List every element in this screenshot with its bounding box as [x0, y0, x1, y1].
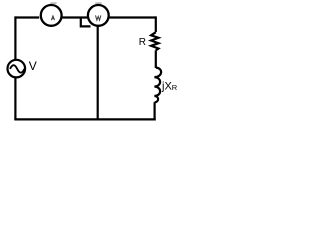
source V1 circle: [7, 60, 25, 78]
resistor R: [151, 32, 158, 50]
wattmeter label W: [96, 15, 101, 20]
wattmeter W1 circle: [88, 5, 109, 26]
tick above ammeter: [50, 3, 56, 4]
wire: bottom rail: [14, 118, 155, 120]
wire: wattmeter bottom to bottom rail: [97, 26, 99, 119]
wire: wattmeter voltage tap step: [81, 18, 91, 27]
inductor jXR coil: [154, 68, 161, 103]
source V1 sine wave: [10, 65, 24, 73]
wire: ammeter to wattmeter: [62, 16, 88, 18]
wire: top-left corner to ammeter: [15, 16, 39, 18]
svg-text:jXR: jXR: [161, 81, 178, 93]
wire: wattmeter to top-right corner: [109, 16, 156, 18]
wire: left rail: [14, 16, 16, 119]
ammeter label A: [51, 16, 54, 20]
wire: resistor to inductor: [155, 50, 157, 68]
svg-text:V: V: [29, 59, 37, 73]
wire: inductor to bottom-right corner: [154, 102, 156, 120]
tick above wattmeter: [95, 3, 101, 4]
svg-text:R: R: [139, 37, 146, 48]
wire: right rail top (corner to resistor): [155, 16, 157, 32]
ammeter A1 circle: [41, 5, 62, 26]
